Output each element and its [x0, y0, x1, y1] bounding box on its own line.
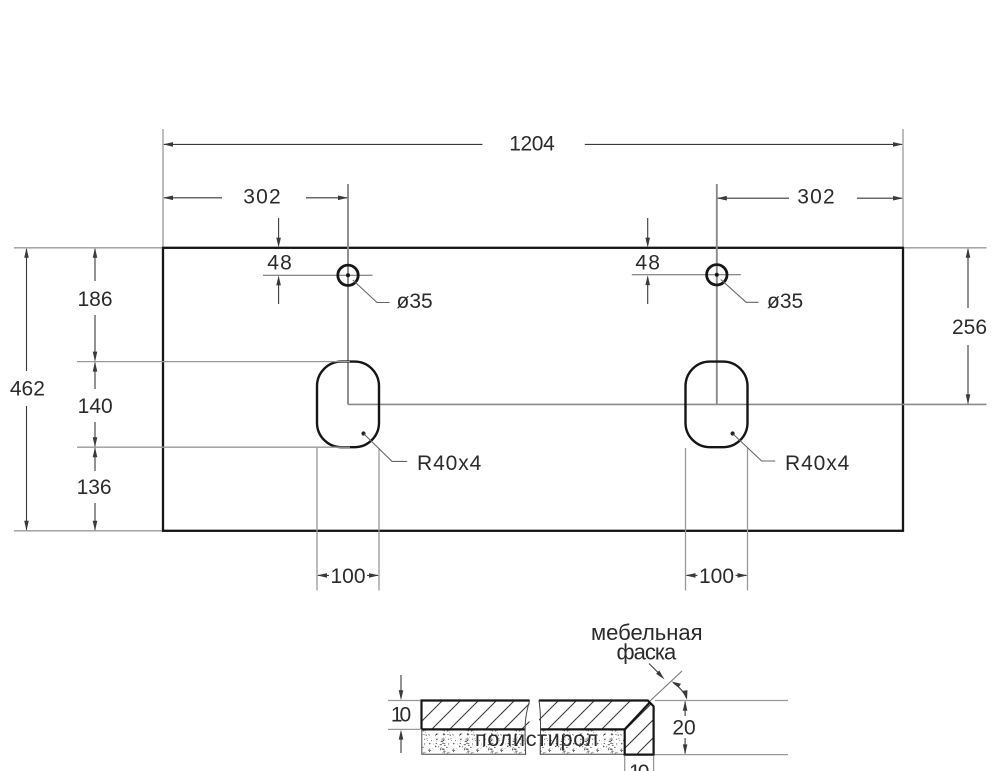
svg-text:140: 140 — [78, 395, 113, 418]
extension line oval top left — [77, 361, 350, 363]
leader line hole left — [353, 280, 390, 303]
extension line below right oval, left side — [685, 448, 687, 591]
svg-text:1204: 1204 — [509, 132, 555, 155]
hatching left part of chipboard — [412, 699, 552, 731]
svg-text:100: 100 — [699, 565, 734, 588]
center cross line right hole — [632, 274, 741, 276]
dimension 256 arrowheads — [966, 248, 971, 258]
drain oval right (R40x4) — [686, 362, 748, 448]
plate outline (countertop 1204x462) — [163, 248, 903, 531]
svg-text:10: 10 — [391, 703, 411, 726]
svg-text:фаска: фаска — [617, 639, 677, 664]
dimension 1204 line — [164, 143, 902, 145]
svg-text:48: 48 — [267, 252, 293, 275]
polystyrene stipple strip left part — [423, 730, 527, 753]
svg-text:10: 10 — [629, 761, 649, 771]
svg-text:100: 100 — [330, 565, 365, 588]
extension line top-right corner vertical — [902, 129, 904, 247]
dimension 1204 arrowheads — [163, 142, 173, 147]
svg-text:ø35: ø35 — [397, 290, 433, 313]
polystyrene strip thin outline left — [422, 730, 526, 754]
svg-text:186: 186 — [77, 288, 112, 311]
dimension 100 right arrowheads — [686, 573, 696, 578]
hatching right part of chipboard and edge band — [528, 697, 702, 766]
svg-text:20: 20 — [672, 717, 695, 740]
dimension 256 line — [967, 249, 969, 403]
svg-text:ø35: ø35 — [767, 290, 803, 313]
svg-text:302: 302 — [797, 186, 836, 209]
leader dot oval right — [731, 431, 735, 435]
svg-text:136: 136 — [77, 476, 112, 499]
leader line oval right — [734, 435, 776, 462]
center cross line left hole — [263, 274, 373, 276]
miter joint diagonal — [625, 703, 650, 730]
faucet hole right (ø35) — [707, 265, 727, 285]
svg-text:462: 462 — [10, 378, 45, 401]
dimension 302 left arrowheads — [163, 196, 173, 201]
extension line below left oval, left side — [316, 448, 318, 591]
svg-text:48: 48 — [635, 252, 661, 275]
svg-text:R40x4: R40x4 — [417, 452, 482, 475]
dimension 462 line — [26, 249, 28, 530]
centerline vertical right hole — [716, 184, 718, 404]
dimension 48 right upper arrow — [647, 218, 649, 238]
extension line top edge rightwards — [904, 247, 987, 249]
leader line oval left — [364, 434, 407, 461]
dimension 20 line — [684, 702, 686, 754]
leader dot oval left — [361, 431, 365, 435]
chipboard bottom edge of top strip right part — [540, 728, 625, 730]
drain oval left (R40x4) — [317, 362, 379, 448]
svg-text:256: 256 — [952, 316, 987, 339]
dimension 48 left upper arrow — [278, 218, 280, 238]
extension lines bottom 10 dim — [625, 756, 654, 771]
svg-text:R40x4: R40x4 — [785, 452, 850, 475]
extension line bottom edge of section rightwards — [655, 754, 788, 756]
dimension 20 arrowheads — [683, 701, 688, 711]
chipboard top strip outline left part — [422, 701, 530, 730]
chamfer extension line — [650, 671, 682, 701]
dimension 100 left line — [318, 574, 378, 576]
dimension 140 line — [94, 363, 96, 447]
extension lines left 10 dim — [388, 701, 420, 730]
dimension 462 arrowheads — [24, 248, 29, 258]
extension line below left oval, right side — [378, 448, 380, 591]
dimension 140 arrowheads — [93, 362, 98, 372]
leader line hole right — [721, 280, 759, 303]
dimension 302 right line — [718, 197, 902, 199]
dimension 302 left line — [164, 197, 347, 199]
chipboard bottom edge of top strip left part — [422, 728, 526, 730]
dimension 48 left lower arrow — [278, 285, 280, 304]
centerline horizontal through oval centers — [348, 403, 987, 405]
faucet hole left (ø35) — [338, 265, 358, 285]
dimension 100 left arrowheads — [317, 573, 327, 578]
extension line top edge of section rightwards — [655, 700, 788, 702]
polystyrene strip thin outline right — [540, 753, 624, 755]
polystyrene stipple strip right part — [540, 730, 624, 753]
dimension 100 right line — [687, 574, 747, 576]
angle dimension arc — [674, 683, 687, 698]
dimension 48 right lower arrow — [647, 285, 649, 304]
centerline vertical left hole — [347, 184, 349, 404]
dimension 186 line — [94, 249, 96, 361]
dimension 302 right arrowheads — [717, 196, 727, 201]
extension line oval bottom left — [77, 446, 350, 448]
break line right — [539, 700, 541, 755]
extension line below right oval, right side — [747, 448, 749, 591]
break line left — [525, 700, 530, 755]
extension line bottom edge leftwards — [14, 530, 162, 532]
dimension 10 left arrows — [400, 675, 402, 691]
extension line top-left corner vertical — [162, 129, 164, 247]
svg-text:302: 302 — [243, 186, 282, 209]
chipboard top strip outline right part and edge band — [539, 701, 654, 755]
dimension 136 line — [94, 448, 96, 530]
dimension 136 arrowheads — [93, 447, 98, 457]
dimension 186 arrowheads — [93, 248, 98, 258]
leader arrow from chamfer label — [649, 664, 661, 676]
extension line top edge leftwards — [14, 247, 162, 249]
